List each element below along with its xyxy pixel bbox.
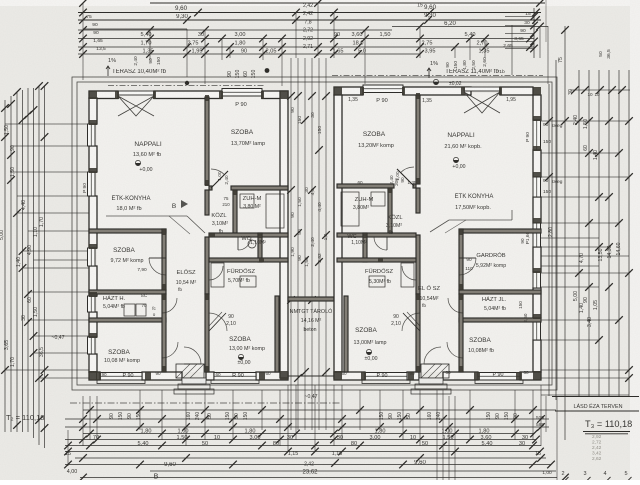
right unit: door furdosz [402,266,416,280]
right unit: zuh fixtures [371,192,385,206]
left unit: door szoba bottom-left [162,342,178,358]
left unit: west wall windows [88,124,96,146]
corner bracket above terasz [83,28,187,30]
right unit: bottom windows [365,373,407,381]
left unit: wall hazt-szoba horizontal [89,318,166,322]
left unit: entry door opening and steps [182,378,206,384]
right unit: east wall windows [533,120,541,150]
left unit: wall kozl-zuh vertical [233,190,237,233]
terrace / eaves outline outer [72,77,557,390]
left unit: wall wc vertical [258,233,262,262]
right unit: door hazt jl [448,298,463,313]
middle gap: vertical dimension lines [290,58,292,430]
left unit: wall nappali-szoba vertical [205,97,209,185]
right unit: door szoba bottom [403,313,420,331]
right unit: wall szoba-nappali vertical [416,95,420,184]
right unit: west party wall [334,95,342,378]
left unit: top exterior wall [89,91,118,99]
right unit: terrace glass door with X symbol [464,87,500,91]
middle storage taroló bottom edge [288,375,334,377]
dimension block top: tick marks [79,0,87,7]
terasz dash-dot edge left [108,84,265,86]
right unit: door szoba bottom-right [447,342,463,358]
right unit: door wc [374,237,387,250]
left unit: wall szoba bottom-mid vertical [205,294,209,372]
left unit: terrace glass door with X symbol [118,91,154,95]
left unit: door wc [238,237,251,250]
right unit: top exterior wall [334,87,363,95]
right unit: entry hatch mat [421,364,449,378]
left unit: door hazt [162,298,177,313]
left unit: door szoba top [211,169,224,175]
dimension block top: chain lines [78,0,548,54]
left unit: door furdosz [209,266,223,280]
left unit: wall lower vertical elosz-szoba [162,294,166,372]
left unit: top window P 90 [222,89,262,97]
title box lasd eza terven [552,396,639,398]
dimension block right: vertical chain lines [548,84,550,396]
left unit: wall zuh band horizontal [209,233,288,237]
right unit: top window [363,85,403,93]
right unit: wall szoba west double [344,296,348,372]
right unit: wall elosz-szoba vertical [459,229,463,290]
left unit: wall hazt band horizontal [89,290,166,294]
left unit: wall under szoba horizontal [231,186,288,190]
dimension block left: tick marks [1,104,9,112]
left unit: wall furdosz west vertical [205,237,209,294]
left unit: wall kozl west vertical [205,190,209,215]
right unit: furdosz fixtures [401,263,414,287]
left unit: door elosz-szoba [149,258,166,275]
right unit: wall lower vertical [459,294,463,372]
left unit: hazt fixtures [124,304,135,316]
middle storage taroló top wall [288,297,334,301]
dimension block bottom: extension verticals [67,430,69,466]
ground dash-dot line bottom [70,402,340,404]
terasz dash-dot edge right [332,75,543,77]
dimension block bottom: chain lines [83,409,556,411]
dimension block top: extension verticals [82,3,84,80]
left unit: entry door arc [184,347,201,364]
right unit: wall kozl east vertical [416,188,420,213]
right unit: wall hazt-szoba horizontal [459,318,541,322]
middle gap: tick marks [287,92,295,100]
dimension block left: vertical chain lines [4,100,6,432]
left unit: wall furdosz top horizontal [209,258,288,262]
left unit: east party wall [280,91,288,378]
right unit: wall furdosz top horizontal [337,258,416,262]
left unit: wall szoba-elosz vertical [162,229,166,290]
left unit: wall etk-szoba horizontal [89,229,166,233]
right unit: wall wc vertical [363,233,367,262]
left unit: west exterior wall segments [89,98,97,124]
right unit: entry door arc [424,347,441,364]
left unit: wall szoba east double [275,296,279,372]
dimension block left: extension horizontals [5,123,89,125]
right unit: wall furdosz east vertical [416,235,420,294]
right unit: wall szoba bottom vertical [416,294,420,372]
small dimension stack above right unit corner [533,8,535,58]
scan noise overlay [0,0,1,1]
room interior lightening [97,95,280,372]
left unit: door szoba bottom-mid [209,313,226,331]
level mark +0,02 right terasz [433,79,438,84]
dimension block bottom: tick marks [86,406,94,414]
right unit: entry door opening and steps [419,378,443,384]
wall junction blobs [89,91,97,99]
right unit: bottom exterior wall segments [334,372,365,380]
right unit: wall etk horizontal [460,229,541,233]
right unit: wall under szoba horizontal [337,184,394,188]
right unit: wall hazt band horizontal [459,290,541,294]
right unit: door szoba top [401,167,414,173]
terrace / eaves outline inner [77,82,552,385]
dimension block right: tick marks [545,117,553,125]
left unit: bottom windows P 90 / R 90 [100,373,142,381]
left unit: bottom exterior wall segments [89,372,100,380]
right unit: wall kozl-zuh vertical [388,188,392,233]
level dot top-left wing [265,68,270,73]
dimension block right: extension horizontals [541,120,629,122]
right unit: kitchen counter line [449,219,512,221]
left unit: entry hatch mat [176,364,204,378]
left unit: kitchen counter line [106,215,187,217]
left unit: zuh fixtures [240,194,254,208]
left unit: furdosz fixtures [211,263,224,287]
right unit: east exterior wall segments [533,95,541,120]
right unit: wall zuh band horizontal [337,233,416,237]
right unit: door elosz-gardrob [459,258,476,275]
